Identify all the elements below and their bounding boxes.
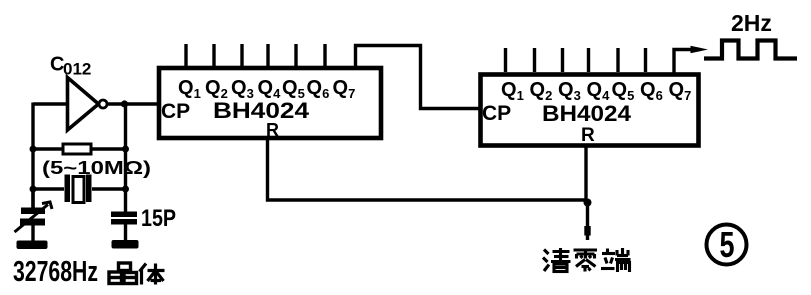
resistor R1 (5~10M ohm) [33, 144, 126, 154]
node [122, 146, 129, 153]
pin Q3 U2 [240, 44, 243, 66]
pin Q3 U3 [561, 48, 564, 72]
node [30, 186, 37, 193]
label jing (crystal) hand-drawn [109, 263, 137, 284]
wire reset stub down [586, 203, 589, 241]
svg-text:2Hz: 2Hz [731, 10, 772, 36]
labels Q1-Q7 U2 [178, 77, 355, 101]
svg-text:BH4024: BH4024 [542, 101, 632, 126]
arrowhead output [691, 46, 709, 53]
svg-text:5: 5 [719, 224, 734, 265]
wire: left feedback vertical [31, 103, 34, 209]
waveform 2Hz [704, 41, 797, 59]
ground [112, 240, 139, 249]
labels Q1-Q7 U3 [501, 79, 691, 103]
wire: inverter output to CP of U2 [108, 102, 159, 105]
wire U2 Q7 to U3 CP [356, 46, 482, 109]
ground [17, 241, 48, 250]
wire U3 R down [584, 145, 587, 203]
label qing (clear) hand-drawn [543, 248, 571, 272]
wire reset bus: U2 R down and across [268, 138, 588, 200]
IC U3 BH4024 [481, 75, 699, 146]
pin Q2 U2 [212, 44, 215, 66]
pin Q6 U2 [323, 44, 326, 66]
wire: right feedback vertical [124, 104, 127, 212]
pin Q4 U2 [266, 44, 269, 66]
IC U2 BH4024 [159, 68, 381, 138]
node reset junction [584, 199, 592, 207]
svg-text:R: R [266, 120, 279, 140]
pin Q5 U3 [616, 48, 619, 72]
svg-text:(5~10MΩ): (5~10MΩ) [42, 158, 151, 178]
node [122, 186, 129, 193]
label C012 [50, 54, 91, 79]
wire: inverter input [33, 102, 68, 105]
node [30, 146, 37, 153]
inverter U1 (CMOS gate) [68, 78, 108, 131]
label ling (zero) hand-drawn [574, 250, 598, 272]
pin Q6 U3 [644, 48, 647, 72]
svg-text:012: 012 [63, 60, 91, 79]
capacitor C2 15P [111, 212, 137, 241]
svg-text:R: R [581, 125, 595, 146]
svg-text:CP: CP [161, 100, 190, 123]
pin Q2 U3 [533, 48, 536, 72]
node: output junction [121, 100, 128, 107]
svg-text:CP: CP [482, 102, 511, 125]
label duan (terminal) hand-drawn [601, 248, 631, 272]
wire U3 Q7 to output [674, 50, 700, 75]
svg-text:32768Hz: 32768Hz [13, 256, 98, 288]
pin Q1 U3 [504, 48, 507, 72]
svg-text:15P: 15P [141, 205, 176, 232]
label ti (body) hand-drawn [140, 264, 165, 285]
pin Q1 U2 [184, 44, 187, 66]
crystal Y1 [33, 175, 126, 203]
figure number 5 circled [707, 224, 747, 265]
svg-text:BH4024: BH4024 [213, 98, 310, 123]
pin Q5 U2 [294, 44, 297, 66]
trimmer capacitor C1 [15, 189, 53, 241]
pin Q4 U3 [587, 48, 590, 72]
